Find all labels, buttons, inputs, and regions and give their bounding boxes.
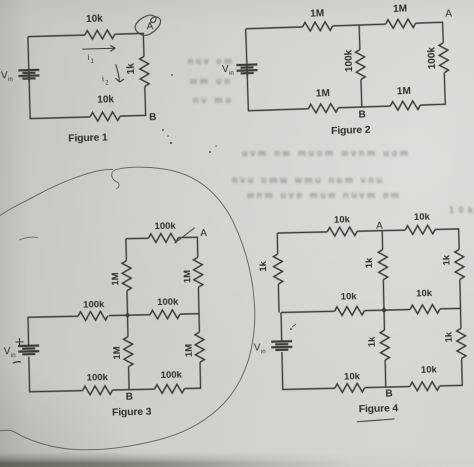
svg-text:100k: 100k: [87, 372, 109, 383]
svg-text:1M: 1M: [393, 3, 407, 14]
svg-text:1k: 1k: [258, 260, 269, 272]
svg-text:in: in: [11, 353, 16, 359]
svg-text:1: 1: [91, 59, 95, 65]
svg-text:in: in: [261, 349, 266, 355]
svg-text:1M: 1M: [112, 346, 123, 360]
svg-text:B: B: [149, 112, 157, 123]
svg-text:V: V: [1, 70, 8, 81]
svg-text:1k: 1k: [364, 257, 375, 269]
svg-text:1k: 1k: [367, 336, 378, 348]
svg-text:1M: 1M: [397, 86, 411, 97]
svg-text:nv mo: nv mo: [193, 95, 232, 105]
svg-text:V: V: [4, 346, 11, 357]
svg-text:B: B: [126, 392, 133, 403]
svg-text:A: A: [200, 228, 207, 239]
svg-text:1k: 1k: [444, 331, 455, 343]
svg-text:100k: 100k: [83, 299, 105, 310]
svg-text:100k: 100k: [157, 297, 179, 308]
svg-text:1k: 1k: [126, 63, 137, 75]
svg-text:100k: 100k: [161, 370, 183, 381]
svg-text:10k: 10k: [414, 212, 431, 223]
svg-text:B: B: [358, 109, 366, 120]
svg-text:A: A: [376, 221, 383, 232]
svg-text:Figure 2: Figure 2: [331, 124, 371, 137]
svg-text:Figure 4: Figure 4: [359, 402, 399, 415]
svg-text:i: i: [87, 53, 89, 62]
svg-text:A: A: [445, 8, 452, 19]
svg-text:in: in: [8, 77, 13, 83]
svg-text:nvu omw wmu nom vnu: nvu omw wmu nom vnu: [232, 175, 382, 185]
svg-text:wm un: wm un: [189, 76, 230, 86]
svg-text:10k: 10k: [86, 14, 103, 25]
svg-text:10k: 10k: [449, 205, 474, 215]
svg-text:i: i: [102, 75, 104, 84]
svg-text:B: B: [385, 388, 392, 399]
svg-text:Figure 1: Figure 1: [68, 131, 108, 144]
svg-text:10k: 10k: [416, 288, 433, 299]
svg-text:1M: 1M: [182, 270, 193, 284]
svg-text:nuv om: nuv om: [188, 56, 232, 66]
svg-text:1M: 1M: [184, 344, 195, 358]
svg-text:1M: 1M: [110, 272, 121, 286]
svg-text:V: V: [254, 342, 261, 353]
svg-text:2: 2: [105, 80, 109, 86]
svg-text:Figure 3: Figure 3: [112, 406, 152, 419]
svg-text:wnm uvo muw nuvm om: wnm uvo muw nuvm om: [246, 190, 399, 200]
svg-text:100k: 100k: [343, 49, 355, 72]
svg-text:10k: 10k: [421, 364, 438, 375]
svg-text:1k: 1k: [441, 254, 452, 266]
svg-text:10k: 10k: [334, 214, 351, 225]
svg-text:uvm nw muom wvnm uom: uvm nw muom wvnm uom: [242, 148, 408, 158]
svg-text:1M: 1M: [310, 8, 324, 19]
svg-text:10k: 10k: [97, 94, 114, 105]
svg-text:100k: 100k: [426, 46, 438, 69]
svg-text:100k: 100k: [154, 221, 176, 232]
svg-text:10k: 10k: [341, 291, 358, 302]
svg-text:10k: 10k: [344, 371, 361, 382]
svg-text:1M: 1M: [316, 88, 330, 99]
